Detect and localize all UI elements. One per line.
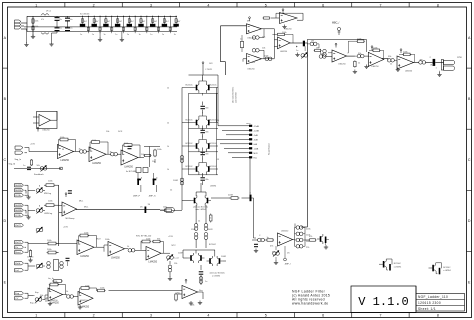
svg-text:1n: 1n (92, 34, 94, 36)
svg-text:+15V: +15V (63, 227, 69, 229)
svg-text:Bend: Bend (15, 252, 21, 254)
svg-text:LM4250: LM4250 (338, 64, 346, 66)
svg-text:4k7: 4k7 (95, 21, 98, 23)
svg-text:DCF: DCF (118, 131, 123, 133)
svg-text:LM4250: LM4250 (80, 255, 89, 258)
svg-text:oder LM394: oder LM394 (195, 208, 205, 211)
svg-text:BC550C: BC550C (186, 120, 194, 122)
svg-text:LM4250: LM4250 (80, 300, 88, 302)
svg-text:Sng_fb: Sng_fb (9, 164, 16, 166)
svg-text:1M: 1M (311, 41, 314, 43)
svg-text:Sng_In: Sng_In (15, 159, 22, 161)
svg-text:3: 3 (150, 3, 152, 7)
svg-text:BC550C: BC550C (210, 143, 218, 145)
svg-text:+15V: +15V (168, 236, 174, 238)
svg-text:BC550C: BC550C (394, 263, 402, 265)
svg-text:D: D (468, 219, 471, 223)
svg-text:www.haraldswerk.de: www.haraldswerk.de (292, 302, 329, 306)
svg-text:10u: 10u (70, 19, 73, 21)
svg-text:MWBD: MWBD (15, 210, 22, 212)
svg-text:4k7: 4k7 (142, 21, 145, 23)
svg-text:or LM394: or LM394 (212, 275, 220, 278)
svg-text:Feedback: Feedback (34, 174, 45, 176)
svg-text:68n: 68n (206, 179, 209, 181)
svg-text:1n: 1n (80, 34, 82, 36)
svg-text:o.LM394: o.LM394 (394, 266, 401, 268)
svg-text:JMP_S: JMP_S (149, 196, 157, 198)
svg-text:150R: 150R (191, 229, 196, 231)
svg-text:6: 6 (322, 3, 324, 7)
svg-text:1n: 1n (104, 34, 106, 36)
svg-text:BC550C: BC550C (209, 244, 217, 246)
svg-text:-12dB: -12dB (254, 130, 260, 132)
svg-text:6: 6 (322, 314, 324, 318)
svg-text:47k: 47k (41, 19, 44, 21)
svg-text:7: 7 (379, 3, 381, 7)
svg-text:MCV: MCV (96, 238, 101, 240)
svg-text:KbCV: KbCV (15, 242, 21, 244)
svg-text:BC550C: BC550C (210, 166, 218, 168)
svg-text:JP_in: JP_in (46, 11, 51, 13)
svg-text:1n: 1n (139, 34, 141, 36)
svg-text:MC: MC (247, 21, 251, 23)
svg-text:Res: Res (254, 157, 258, 159)
svg-text:1n: 1n (174, 34, 176, 36)
svg-text:JMP_F: JMP_F (133, 196, 141, 198)
svg-text:5: 5 (265, 3, 267, 7)
svg-text:C: C (468, 158, 471, 162)
svg-text:BC550C: BC550C (186, 85, 194, 87)
svg-text:o.LM394: o.LM394 (443, 270, 450, 272)
svg-text:C: C (3, 158, 6, 162)
svg-text:10u: 10u (59, 27, 62, 29)
svg-text:10u: 10u (59, 19, 62, 21)
svg-text:LinI: LinI (15, 270, 19, 272)
svg-text:LM4250: LM4250 (371, 66, 379, 68)
svg-text:7: 7 (379, 314, 381, 318)
svg-text:MWBD: MWBD (15, 190, 22, 192)
svg-text:4k7: 4k7 (166, 21, 169, 23)
svg-text:alternativ BC550C: alternativ BC550C (232, 86, 235, 103)
svg-text:4k7: 4k7 (131, 21, 134, 23)
svg-text:oder LM394: oder LM394 (236, 91, 238, 103)
svg-text:LM4250: LM4250 (50, 302, 59, 305)
svg-text:8: 8 (437, 314, 439, 318)
svg-text:Prt: Prt (15, 246, 18, 249)
svg-text:1M: 1M (321, 54, 324, 56)
svg-text:100k: 100k (190, 305, 194, 307)
svg-text:1V/Okt: 1V/Okt (27, 256, 34, 259)
svg-text:MWBU: MWBU (15, 205, 22, 207)
svg-text:LM4250: LM4250 (92, 162, 101, 165)
svg-text:100k: 100k (35, 26, 39, 28)
svg-text:1n: 1n (127, 34, 129, 36)
svg-text:1k: 1k (167, 88, 169, 90)
svg-text:1k: 1k (167, 146, 169, 148)
svg-text:BC550C: BC550C (443, 267, 451, 269)
svg-text:LMW log: LMW log (44, 213, 53, 215)
svg-text:1M: 1M (316, 48, 319, 50)
svg-text:3: 3 (150, 314, 152, 318)
svg-text:LT1021: LT1021 (206, 69, 214, 71)
svg-text:100k: 100k (35, 21, 39, 23)
svg-text:150R: 150R (208, 229, 213, 231)
svg-text:1k: 1k (167, 123, 169, 125)
svg-text:LM4250: LM4250 (60, 159, 69, 162)
svg-text:LM4250: LM4250 (284, 29, 292, 31)
svg-text:D: D (3, 219, 6, 223)
svg-text:BC550C: BC550C (210, 85, 218, 87)
svg-text:CV: CV (15, 298, 19, 300)
svg-text:MWBU: MWBU (15, 185, 22, 187)
svg-text:1n: 1n (115, 34, 117, 36)
svg-text:100R: 100R (178, 253, 183, 255)
svg-text:68n: 68n (206, 132, 209, 134)
svg-text:KbGt: KbGt (15, 262, 20, 265)
svg-text:alternativ BC550C: alternativ BC550C (210, 272, 226, 275)
svg-text:4k7: 4k7 (154, 21, 157, 23)
svg-text:100R: 100R (173, 180, 178, 182)
svg-text:4k7: 4k7 (107, 21, 110, 23)
svg-text:OUT: OUT (430, 65, 435, 67)
svg-text:1n: 1n (150, 34, 152, 36)
svg-text:68n: 68n (206, 154, 209, 156)
svg-text:+6dB: +6dB (254, 148, 259, 150)
svg-text:V 1.1.0: V 1.1.0 (358, 295, 408, 309)
svg-text:-6dB: -6dB (254, 139, 259, 141)
svg-text:4k7: 4k7 (177, 21, 180, 23)
svg-text:LM4250: LM4250 (281, 231, 289, 233)
svg-text:LM4250: LM4250 (405, 71, 413, 73)
svg-text:+15V: +15V (30, 144, 36, 146)
svg-text:BC550C: BC550C (186, 143, 194, 145)
svg-text:1n: 1n (162, 34, 164, 36)
svg-text:2: 2 (93, 3, 95, 7)
svg-text:4x BC548B: 4x BC548B (126, 171, 137, 173)
svg-text:4k7: 4k7 (119, 21, 122, 23)
svg-text:Res: Res (199, 290, 203, 292)
svg-text:LM4250: LM4250 (247, 69, 255, 71)
svg-text:NGF_Ladder_110: NGF_Ladder_110 (418, 295, 448, 299)
svg-text:BC550C: BC550C (186, 166, 194, 168)
svg-text:MBC_/: MBC_/ (332, 22, 340, 25)
svg-text:JMP_/: JMP_/ (285, 264, 292, 266)
svg-text:100R: 100R (221, 256, 226, 258)
svg-text:NTC: NTC (172, 245, 177, 247)
svg-text:8: 8 (437, 3, 439, 7)
svg-text:LFOb: LFOb (15, 215, 21, 217)
svg-text:10u: 10u (70, 27, 73, 29)
svg-text:LM4250: LM4250 (111, 257, 120, 260)
svg-text:2: 2 (93, 314, 95, 318)
svg-text:LFOb: LFOb (15, 195, 21, 197)
svg-text:4k7: 4k7 (84, 21, 87, 23)
svg-text:LM4250: LM4250 (50, 300, 58, 302)
svg-text:1k: 1k (167, 169, 169, 171)
svg-text:220R: 220R (228, 195, 233, 197)
svg-text:4: 4 (207, 314, 209, 318)
svg-text:1: 1 (35, 3, 37, 7)
svg-text:f_corr: f_corr (174, 258, 180, 260)
svg-text:NTC KTY81-110: NTC KTY81-110 (136, 236, 152, 238)
svg-text:120615 2300: 120615 2300 (418, 301, 441, 305)
svg-text:-9dB: -9dB (254, 135, 259, 137)
svg-text:1: 1 (35, 314, 37, 318)
svg-text:8x LM3046: 8x LM3046 (80, 14, 89, 16)
svg-text:To pot board: To pot board (268, 143, 271, 155)
svg-text:-15dB: -15dB (254, 126, 260, 128)
svg-text:MW log: MW log (44, 193, 52, 195)
svg-text:68n: 68n (206, 108, 209, 110)
svg-text:Sheet: 1/1: Sheet: 1/1 (418, 307, 436, 311)
svg-text:5: 5 (265, 314, 267, 318)
svg-text:LM4250: LM4250 (280, 51, 288, 53)
svg-text:LM394: LM394 (210, 186, 217, 188)
svg-text:LM4250: LM4250 (124, 166, 133, 169)
svg-text:4: 4 (207, 3, 209, 7)
svg-text:LM4250: LM4250 (42, 130, 50, 132)
svg-text:Exp_In: Exp_In (30, 303, 37, 305)
svg-text:LM4250: LM4250 (148, 261, 157, 264)
svg-text:MODamp: MODamp (66, 218, 76, 220)
svg-text:KbCV: KbCV (15, 225, 21, 227)
